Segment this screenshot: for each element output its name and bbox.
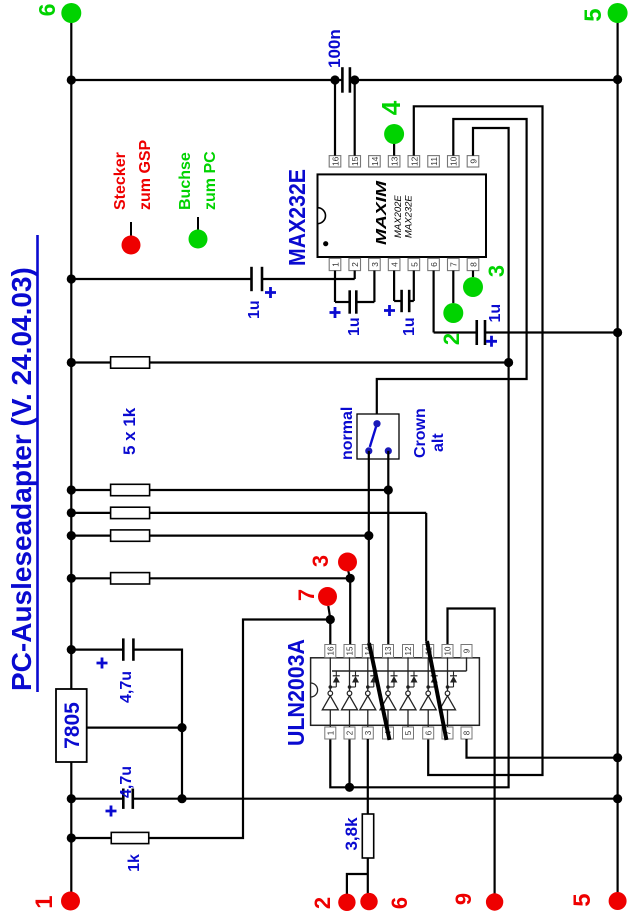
junction <box>67 75 76 84</box>
junction <box>504 358 513 367</box>
U2 pin 7 <box>442 727 453 739</box>
junction <box>384 485 393 494</box>
U1 pin 11 <box>428 156 440 167</box>
svg-text:1: 1 <box>330 262 340 267</box>
junction <box>613 75 622 84</box>
svg-text:16: 16 <box>330 156 340 166</box>
svg-text:6: 6 <box>34 4 60 17</box>
capacitor 4,7u (b) <box>122 789 125 809</box>
U2 pin 11 <box>423 645 434 658</box>
U1 pin 9 <box>467 156 479 167</box>
capacitor 1u (C1 pins 1-3) <box>334 271 336 302</box>
U1 pin1 mark <box>323 241 328 246</box>
U2 pin 3 <box>362 727 373 739</box>
junction <box>613 794 622 803</box>
wire ULN pin10 to node 9 <box>448 609 495 895</box>
wire U1 pin16 to rail <box>334 80 336 156</box>
svg-text:7: 7 <box>294 589 319 601</box>
wire diagonal to ULN pin7 <box>427 641 447 740</box>
svg-text:3,8k: 3,8k <box>342 817 361 851</box>
svg-text:1: 1 <box>327 730 336 735</box>
svg-text:8: 8 <box>463 730 472 735</box>
U2 channel 3 driver <box>367 710 369 727</box>
svg-text:10: 10 <box>449 156 459 166</box>
U2 pin 13 <box>383 645 394 658</box>
capacitor 100n <box>341 67 344 93</box>
node 9 connector <box>486 893 503 910</box>
svg-text:13: 13 <box>384 646 393 655</box>
svg-text:ULN2003A: ULN2003A <box>283 639 309 746</box>
U2 pin 10 <box>442 645 453 658</box>
wire U1 pin12 to ULN pin6 <box>414 106 543 775</box>
svg-text:4,7u: 4,7u <box>118 671 135 703</box>
U1 pin 16 <box>329 156 341 167</box>
U2 pin 16 <box>325 645 336 658</box>
wire rail B (bottom rail) <box>616 13 618 901</box>
svg-text:4,7u: 4,7u <box>118 766 135 798</box>
svg-text:normal: normal <box>339 407 356 460</box>
wire rail A (V+ top rail) <box>70 762 72 901</box>
wire VCC line (MAX side) <box>71 79 342 81</box>
svg-text:7805: 7805 <box>61 702 84 749</box>
U2 pin 2 <box>344 727 355 739</box>
switch S1 lever <box>370 424 377 447</box>
wire switch lower contact to ULN pin13 <box>387 451 389 644</box>
svg-text:10: 10 <box>444 646 453 655</box>
svg-text:3: 3 <box>370 262 380 267</box>
U1 pin 7 <box>447 258 459 270</box>
svg-text:Crown: Crown <box>412 408 429 458</box>
svg-text:3: 3 <box>308 555 333 567</box>
U2 channel 7 clamp diode <box>446 685 450 689</box>
U2 pin 1 <box>325 727 336 739</box>
wire branch to node 2 <box>347 874 368 894</box>
wire ULN pin2 <box>348 739 350 787</box>
svg-text:Buchse: Buchse <box>177 152 194 210</box>
svg-text:3: 3 <box>364 730 373 735</box>
U1 pin 4 <box>388 258 400 270</box>
svg-text:8: 8 <box>468 262 478 267</box>
svg-text:12: 12 <box>404 646 413 655</box>
legend Buchse zum PC <box>189 230 208 249</box>
svg-text:5 x 1k: 5 x 1k <box>120 407 139 455</box>
wire U1 pin8 stub <box>472 271 474 277</box>
U2 channel 2 clamp diode <box>348 685 352 689</box>
svg-text:1u: 1u <box>246 300 263 319</box>
junction <box>364 531 373 540</box>
U1 pin 3 <box>369 258 381 270</box>
svg-text:MAX232E: MAX232E <box>284 169 310 266</box>
svg-text:Stecker: Stecker <box>112 152 129 210</box>
wire R3 toward ULN pin7 <box>425 513 427 641</box>
svg-text:MAX202E: MAX202E <box>393 195 404 238</box>
capacitor 1u (C2 pins 4-5) <box>393 271 395 301</box>
svg-text:5: 5 <box>569 893 596 906</box>
U1 pin 15 <box>349 156 361 167</box>
U1 pin 12 <box>408 156 420 167</box>
capacitor 1u (V- pin6) <box>433 271 435 333</box>
capacitor 1u (V+ pin2) <box>71 278 251 280</box>
U2 channel 6 clamp diode <box>426 685 430 689</box>
resistor R5 (1k) <box>71 577 110 579</box>
resistor 3,8k <box>367 739 369 814</box>
U1 pin 13 <box>388 156 400 167</box>
node 3 (green) <box>463 277 483 297</box>
svg-text:100n: 100n <box>325 29 344 68</box>
U2 pin 5 <box>403 727 414 739</box>
resistor R3 (1k) <box>71 512 110 514</box>
U2 channel 1 clamp diode <box>329 685 333 689</box>
U2 channel 7 driver <box>447 710 449 727</box>
wire long ground line <box>133 798 618 800</box>
svg-text:zum PC: zum PC <box>202 151 219 210</box>
node 1 connector <box>61 892 80 911</box>
svg-text:1u: 1u <box>401 317 418 336</box>
junction <box>346 574 355 583</box>
svg-text:12: 12 <box>409 156 419 166</box>
wire switch upper contact toward ULN pin4 <box>368 451 370 643</box>
svg-text:PC-Ausleseadapter (V. 24.04.03: PC-Ausleseadapter (V. 24.04.03) <box>6 267 37 691</box>
switch S1 contacts <box>373 420 380 427</box>
wire cap to gnd line <box>133 648 182 650</box>
svg-text:2: 2 <box>346 730 355 735</box>
wire rail to cap C_4u7 a <box>71 648 123 650</box>
wire U1 pin7 stub <box>452 271 454 303</box>
svg-text:16: 16 <box>327 646 336 655</box>
junction <box>67 794 76 803</box>
svg-text:4: 4 <box>390 262 400 267</box>
svg-text:5: 5 <box>409 262 419 267</box>
U2 channel 4 clamp diode <box>386 685 390 689</box>
wire gnd line <box>181 649 183 800</box>
U1 pin 6 <box>428 258 440 270</box>
wire 7805 ground pin <box>87 726 182 728</box>
U2 pin 8 <box>461 727 472 739</box>
U2 channel 4 driver <box>387 710 389 727</box>
U1 pin 5 <box>408 258 420 270</box>
U2 pin 6 <box>423 727 434 739</box>
junction <box>177 723 186 732</box>
regulator 7805 <box>56 689 87 762</box>
svg-text:9: 9 <box>463 648 472 653</box>
svg-text:9: 9 <box>451 893 476 905</box>
svg-text:3: 3 <box>484 265 509 277</box>
svg-text:1k: 1k <box>126 854 143 872</box>
svg-text:5: 5 <box>404 730 413 735</box>
wire U1 pin15 to rail <box>354 80 356 156</box>
svg-text:1: 1 <box>31 895 58 908</box>
svg-text:9: 9 <box>468 159 478 164</box>
resistor R4 (1k) <box>71 534 110 536</box>
wire gnd rail to cap <box>71 798 123 800</box>
legend Stecker zum GSP <box>122 236 141 255</box>
wire U1 pin13 stub <box>393 142 395 156</box>
wire 1k to ULN pin16 <box>149 620 331 839</box>
svg-text:5: 5 <box>580 8 607 21</box>
capacitor 4,7u (a) <box>122 638 125 660</box>
resistor R1 (1k) <box>71 361 110 363</box>
op-amp U2 ULN2003A body <box>311 658 480 726</box>
U2 pin 14 <box>362 645 373 658</box>
wire ULN pin15 to R5 <box>349 578 351 644</box>
svg-text:zum GSP: zum GSP <box>137 139 154 210</box>
U2 channel 5 driver <box>407 710 409 727</box>
svg-text:2: 2 <box>310 897 335 909</box>
junction <box>67 645 76 654</box>
svg-text:4: 4 <box>376 100 406 115</box>
junction <box>326 615 335 624</box>
U2 channel 1 driver <box>329 710 331 727</box>
wire U1 pin10 to switch <box>377 119 527 423</box>
junction <box>613 753 622 762</box>
U2 pin 15 <box>344 645 355 658</box>
svg-text:6: 6 <box>424 730 433 735</box>
U1 pin 1 <box>329 258 341 270</box>
U1 pin 14 <box>369 156 381 167</box>
svg-text:2: 2 <box>350 262 360 267</box>
node 6 connector <box>61 3 81 23</box>
U1 pin 10 <box>447 156 459 167</box>
U2 common rail (pin9) <box>332 670 467 672</box>
svg-text:alt: alt <box>430 433 447 452</box>
resistor R2 (1k) <box>71 489 110 491</box>
node 2 (green) <box>443 303 463 323</box>
svg-text:7: 7 <box>449 262 459 267</box>
svg-text:MAXIM: MAXIM <box>374 180 390 245</box>
svg-text:6: 6 <box>429 262 439 267</box>
U2 pin 4 <box>383 727 394 739</box>
op-amp U1 MAX232E body <box>318 174 487 257</box>
svg-text:11: 11 <box>429 157 439 166</box>
svg-text:13: 13 <box>390 156 400 166</box>
svg-text:15: 15 <box>346 646 355 655</box>
node 4 (green) <box>384 124 404 144</box>
node 6 connector (bottom) <box>360 893 377 910</box>
U2 pin 9 <box>461 645 472 658</box>
U2 pin 12 <box>403 645 414 658</box>
resistor 1k <box>71 837 111 839</box>
svg-text:1u: 1u <box>346 317 363 336</box>
svg-text:14: 14 <box>370 156 380 166</box>
U2 channel 6 driver <box>427 710 429 727</box>
U2 channel 3 clamp diode <box>366 685 370 689</box>
wire ULN pin8 to rail B <box>467 739 618 758</box>
svg-text:6: 6 <box>387 897 412 909</box>
node 2 connector (bottom) <box>338 894 355 911</box>
junction <box>177 794 186 803</box>
svg-text:MAX232E: MAX232E <box>404 195 415 238</box>
node 5 connector (bottom) <box>609 892 627 910</box>
junction <box>345 783 354 792</box>
U2 channel 5 clamp diode <box>406 685 410 689</box>
wire 3,8k to node 6 <box>367 858 369 894</box>
svg-text:15: 15 <box>350 156 360 166</box>
node 7 (red) <box>328 606 330 619</box>
svg-text:1u: 1u <box>487 304 504 323</box>
U2 channel 2 driver <box>349 710 351 727</box>
switch S1 box <box>357 414 399 459</box>
node 5 connector (top) <box>608 3 628 23</box>
U1 pin 2 <box>349 258 361 270</box>
wire U1 pin9 to R1 and ULN pins 1,2 <box>330 128 508 787</box>
node 3 (red) <box>348 570 350 578</box>
U1 pin 8 <box>467 258 479 270</box>
wire diagonal to ULN pin4 <box>369 643 390 740</box>
svg-text:2: 2 <box>439 333 464 345</box>
